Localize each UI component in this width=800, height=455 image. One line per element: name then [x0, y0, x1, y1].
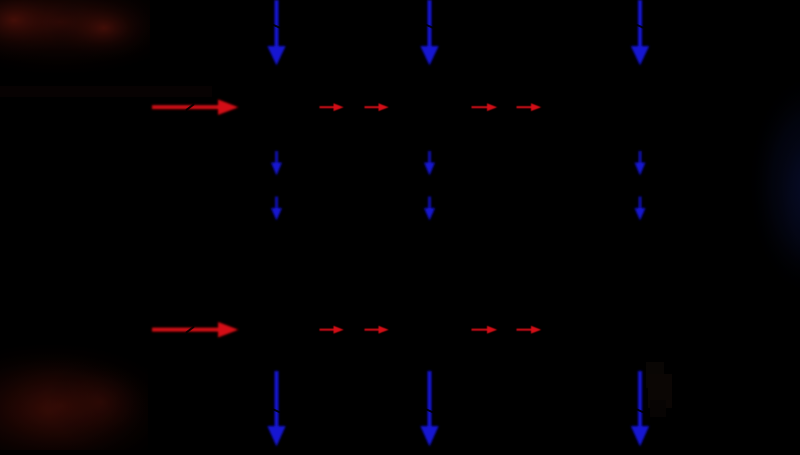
- wire blue top arrow col1: [267, 0, 285, 66]
- break on red arrow row2: [187, 327, 194, 332]
- wire red small arrow row1 d: [517, 103, 542, 111]
- break on red arrow row1: [187, 105, 194, 110]
- wire blue bottom arrow col3: [631, 371, 649, 447]
- wire blue mid lower arrow col1: [271, 197, 282, 221]
- break on bottom arrow col2: [427, 410, 433, 413]
- break on bottom arrow col1: [274, 410, 280, 413]
- wire red big arrow row2: [152, 322, 239, 338]
- wire blue top arrow col2: [420, 0, 438, 66]
- wire blue mid upper arrow col2: [424, 151, 435, 176]
- break on top arrow col3: [637, 25, 643, 28]
- break on bottom arrow col3: [637, 410, 643, 413]
- wire blue mid upper arrow col1: [271, 151, 282, 176]
- wire blue bottom arrow col2: [420, 371, 438, 447]
- break marks (dark slashes across big arrow shafts): [187, 25, 643, 412]
- wire blue mid upper arrow col3: [635, 151, 646, 176]
- wire red small arrow row2 b: [365, 326, 389, 334]
- wire blue mid lower arrow col3: [635, 197, 646, 221]
- wire red small arrow row1 c: [472, 103, 498, 111]
- faint band artifact left: [0, 86, 212, 97]
- break on top arrow col1: [274, 25, 280, 28]
- wire red small arrow row2 a: [320, 326, 344, 334]
- break on top arrow col2: [427, 25, 433, 28]
- wire blue mid lower arrow col2: [424, 197, 435, 221]
- wire red small arrow row2 c: [472, 326, 498, 334]
- faint maroon smudge near col3 bottom arrow: [646, 362, 672, 417]
- wire red small arrow row1 b: [365, 103, 389, 111]
- wire blue bottom arrow col1: [267, 371, 285, 447]
- glow blue right: [746, 70, 800, 300]
- wire red big arrow row1: [152, 99, 239, 115]
- glow red bottom-left (clipped strip): [0, 338, 188, 455]
- wire red small arrow row1 a: [320, 103, 344, 111]
- glow red top-left (clipped strip): [0, 0, 202, 80]
- wire blue top arrow col3: [631, 0, 649, 66]
- wire red small arrow row2 d: [517, 326, 542, 334]
